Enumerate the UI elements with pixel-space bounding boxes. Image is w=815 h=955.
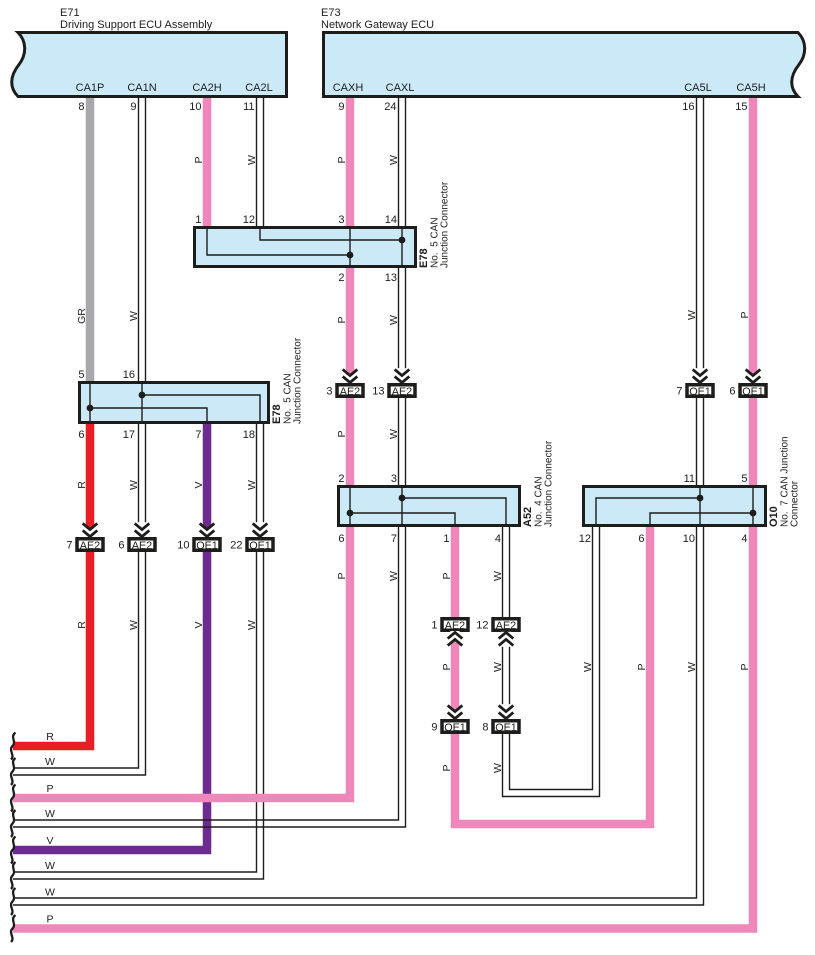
svg-text:6: 6 [78,429,84,441]
svg-text:P: P [441,663,453,670]
svg-text:AE2: AE2 [132,540,152,552]
svg-text:16: 16 [123,369,135,381]
E78 lower internal: pin5-pin6 through line [89,382,91,423]
svg-text:P: P [336,316,348,323]
svg-text:CA1P: CA1P [76,82,105,94]
E78 lower internal: branch to pin18 [142,395,260,423]
svg-text:W: W [45,860,55,872]
svg-text:W: W [492,571,504,581]
wire continuation mark [11,888,16,915]
svg-text:W: W [246,620,258,630]
svg-text:CA2L: CA2L [245,82,273,94]
svg-text:15: 15 [735,101,747,113]
svg-text:W: W [686,310,698,320]
svg-text:P: P [336,156,348,163]
svg-text:OE1: OE1 [689,386,711,398]
svg-text:6: 6 [338,533,344,545]
wire CA1P GR gray vertical [86,98,95,381]
wire continuation mark [11,785,16,812]
svg-text:9: 9 [338,101,344,113]
svg-text:6: 6 [729,386,735,398]
svg-text:7: 7 [676,386,682,398]
svg-text:W: W [582,662,594,672]
svg-text:W: W [388,155,400,165]
connector 1 AE2 with up arrows [442,619,468,631]
wire E78 pin 13 W white pair through 13 AE2 to A52 pin 3 [399,268,406,485]
svg-text:CA2H: CA2H [192,82,221,94]
svg-text:5: 5 [741,473,747,485]
svg-text:11: 11 [243,101,254,113]
svg-text:2: 2 [338,272,344,284]
svg-text:24: 24 [384,101,396,113]
connector 6 AE2 with down arrows [137,522,147,537]
svg-text:18: 18 [243,429,255,441]
svg-text:O10: O10 [768,506,780,527]
connector 6 OE1 with down arrows [748,370,757,384]
svg-text:CA5L: CA5L [684,82,712,94]
svg-text:P: P [193,156,205,163]
wire E78 pin 18 W white pair through 22 OE1 to left edge [13,424,264,879]
svg-text:AE2: AE2 [496,620,516,632]
svg-text:P: P [46,783,53,795]
junction dot [347,252,354,259]
connector 13 AE2 with down arrows [397,368,407,383]
E78 upper internal: pin14-pin13 through line [401,227,403,267]
wire CAXH P pink vertical to junction pin 3 [346,98,355,226]
connector 7 AE2 with down arrows [85,524,94,538]
svg-text:11: 11 [684,473,695,485]
wire E78 pin 7 V violet through 10 OE1 to left edge [13,424,207,850]
wire E78 pin 6 R red through 7 AE2 to left edge [13,424,90,746]
svg-text:12: 12 [243,214,255,226]
connector 7 OE1 with down arrows [695,368,705,383]
svg-text:P: P [636,663,648,670]
connector 3 AE2 with down arrows [345,370,354,384]
wire A52 pin 4 W white pair through 12 AE2 and 8 OE1 to O10 pin 12 [503,527,600,797]
junction connector E78 No.5 CAN (lower) box [80,383,269,423]
svg-text:AE2: AE2 [445,620,465,632]
svg-text:6: 6 [118,540,124,552]
svg-text:P: P [739,311,751,318]
svg-text:7: 7 [66,540,72,552]
svg-text:1: 1 [443,533,449,545]
svg-text:E73: E73 [321,7,341,19]
svg-text:10: 10 [683,533,695,545]
svg-text:12: 12 [579,533,591,545]
svg-text:W: W [45,887,55,899]
svg-text:V: V [46,835,53,847]
svg-text:AE2: AE2 [340,386,360,398]
svg-text:W: W [246,155,258,165]
junction dot [347,510,354,517]
connector 8 OE1 with down arrows [501,704,511,719]
wire O10 pin 4 P pink to left edge [13,527,753,929]
svg-text:R: R [76,481,88,489]
svg-text:AE2: AE2 [392,386,412,398]
svg-text:Junction Connector: Junction Connector [293,337,304,424]
E78 lower internal: branch to pin7 [90,408,207,423]
svg-text:W: W [45,808,55,820]
wire continuation mark [11,733,16,760]
junction dot [399,495,406,502]
O10 internal: pin5-pin4 through line [752,486,754,526]
O10 internal: branch to pin6 [650,513,753,526]
O10 internal: branch to pin12 [596,498,700,526]
E78 upper internal: pin12 to pin13 net [260,227,402,240]
wire continuation mark [11,810,16,837]
connector 9 OE1 with down arrows [450,706,459,720]
svg-text:W: W [492,662,504,672]
svg-text:R: R [46,731,54,743]
svg-text:Network Gateway ECU: Network Gateway ECU [321,19,434,31]
svg-text:W: W [388,571,400,581]
svg-text:W: W [388,429,400,439]
A52 internal: pin2-pin6 through line [349,486,351,526]
svg-text:OE1: OE1 [742,386,764,398]
svg-text:E78: E78 [271,404,283,424]
wire E78 pin 2 P pink through 3 AE2 to A52 pin 2 [346,268,355,485]
svg-text:W: W [388,315,400,325]
svg-text:14: 14 [385,214,397,226]
wire A52 pin 7 W white pair to left edge [13,527,406,827]
junction dot [87,405,94,412]
wire CA5H P pink through 6 OE1 to O10 pin 5 [749,98,758,485]
svg-text:GR: GR [76,308,88,324]
wire A52 pin 6 P pink to left edge [13,527,350,798]
svg-text:A52: A52 [522,507,534,527]
svg-text:CA5H: CA5H [736,82,765,94]
svg-text:P: P [441,572,453,579]
wire CA2H P pink vertical to junction pin 1 [203,98,212,226]
svg-text:P: P [441,764,453,771]
svg-text:4: 4 [741,533,747,545]
svg-text:3: 3 [326,386,332,398]
svg-text:22: 22 [230,540,242,552]
A52 internal: branch to pin4 [402,498,506,526]
O10 internal: pin11-pin10 through line [699,486,701,526]
svg-text:OE1: OE1 [196,540,218,552]
svg-text:P: P [46,914,53,926]
junction connector E78 No.5 CAN (upper) box [195,228,416,267]
svg-text:7: 7 [391,533,397,545]
svg-text:W: W [686,662,698,672]
wire CA1N W white pair vertical [139,98,146,381]
wire continuation mark [11,862,16,889]
svg-text:1: 1 [195,214,201,226]
svg-text:Junction Connector: Junction Connector [440,181,451,268]
svg-text:13: 13 [385,272,397,284]
svg-text:Driving Support ECU Assembly: Driving Support ECU Assembly [60,19,213,31]
svg-text:7: 7 [195,429,201,441]
svg-text:P: P [336,430,348,437]
junction dot [139,392,146,399]
svg-text:Connector: Connector [790,480,801,527]
junction dot [697,495,704,502]
wire CA2L W white pair to junction pin 12 [257,98,264,226]
svg-text:9: 9 [130,101,136,113]
svg-text:10: 10 [189,101,201,113]
svg-text:E71: E71 [60,7,80,19]
svg-text:8: 8 [482,722,488,734]
svg-text:V: V [193,481,205,488]
svg-text:W: W [246,480,258,490]
E78 upper internal: pin3-pin2 through line [349,227,351,267]
junction connector O10 No.7 CAN box [584,487,766,526]
svg-text:W: W [128,311,140,321]
svg-text:W: W [128,620,140,630]
svg-text:3: 3 [338,214,344,226]
svg-text:1: 1 [431,620,437,632]
junction dot [750,510,757,517]
svg-text:W: W [492,763,504,773]
wire continuation mark [11,837,16,864]
svg-text:E78: E78 [418,248,430,268]
ECU E71 Driving Support ECU Assembly box [12,33,287,97]
wire continuation mark [11,915,16,942]
svg-text:CA1N: CA1N [127,82,156,94]
junction dot [399,237,406,244]
wire CA5L W white pair through 7 OE1 to O10 pin 11 [697,98,704,485]
wire O10 pin 10 W white pair to left edge [13,527,704,905]
svg-text:OE1: OE1 [444,722,466,734]
wire continuation mark [11,758,16,785]
svg-text:CAXH: CAXH [333,82,364,94]
svg-text:16: 16 [682,101,694,113]
connector 12 AE2 with up arrows [493,619,519,631]
svg-text:OE1: OE1 [249,540,271,552]
svg-text:V: V [193,621,205,628]
A52 internal: pin3-pin7 through line [401,486,403,526]
svg-text:OE1: OE1 [495,722,517,734]
wire A52 pin 1 P pink through 1 AE2 and 9 OE1 to O10 pin 6 [455,527,650,824]
svg-text:W: W [45,756,55,768]
svg-text:CAXL: CAXL [386,82,415,94]
connector 22 OE1 with down arrows [255,522,265,537]
A52 internal: branch to pin1 [350,513,455,526]
ECU E73 Network Gateway ECU box [324,33,805,97]
svg-text:9: 9 [431,722,437,734]
svg-text:12: 12 [476,620,488,632]
svg-text:6: 6 [638,533,644,545]
E78 upper internal: pin1 to pin2 net [207,227,350,255]
svg-text:P: P [739,663,751,670]
svg-text:W: W [128,480,140,490]
svg-text:13: 13 [372,386,384,398]
wire CAXL W white pair to junction pin 14 [399,98,406,226]
svg-text:AE2: AE2 [80,540,100,552]
svg-text:4: 4 [495,533,501,545]
svg-text:10: 10 [177,540,189,552]
wire E78 pin 17 W white pair through 6 AE2 to left edge [13,424,146,775]
svg-text:3: 3 [391,473,397,485]
svg-text:2: 2 [338,473,344,485]
svg-text:Junction Connector: Junction Connector [544,440,555,527]
svg-text:R: R [76,621,88,629]
junction connector A52 No.4 CAN box [339,487,520,526]
svg-text:P: P [336,572,348,579]
svg-text:5: 5 [78,369,84,381]
svg-text:8: 8 [78,101,84,113]
svg-text:17: 17 [123,429,135,441]
E78 lower internal: pin16-pin17 through line [141,382,143,423]
connector 10 OE1 with down arrows [202,524,211,538]
